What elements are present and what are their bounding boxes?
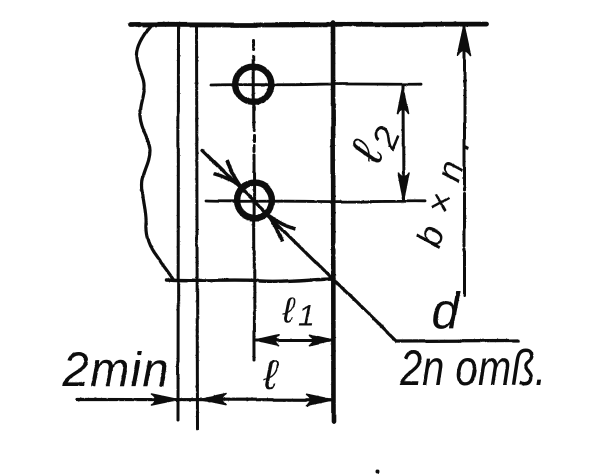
bottom hole center line (horizontal) [206,200,425,203]
arrowhead l right [307,394,333,405]
plate bottom break edge [166,279,334,282]
svg-text:ℓ: ℓ [263,351,280,398]
arrowhead diameter lower-right [270,215,296,241]
dimension line l2 [402,86,406,200]
break line (left wavy edge) [137,27,173,280]
svg-text:2n оmß.: 2n оmß. [399,340,546,396]
dimension line l1 [256,339,332,342]
label l2 (rotated) [339,113,408,173]
svg-text:2min: 2min [61,344,170,397]
arrowhead l1 right [310,335,333,345]
plate right edge (thick vertical) [331,23,336,421]
hole (bottom circle) [237,183,272,218]
dimension line 2min / l [77,398,333,401]
vertical center line (hole axis) [254,40,255,360]
arrowhead l left [200,394,226,405]
edge line A (thin vertical) [177,24,181,420]
arrowhead l1 left [256,335,279,345]
svg-text:b×n.: b×n. [409,133,478,251]
arrowhead b×n up [458,26,471,56]
svg-text:d: d [431,283,461,339]
dimension line b×n [463,27,466,296]
plate top edge [131,22,487,27]
edge line B (thin vertical) [197,24,198,429]
arrowhead l2 up [398,86,409,114]
hole (top circle) [236,67,272,103]
label b×n (rotated) [409,133,478,251]
speck [376,470,380,474]
diameter leader line through bottom hole [202,150,518,341]
svg-text:ℓ: ℓ [281,289,296,330]
top hole center line (horizontal) [211,83,421,87]
arrowhead 2min right [152,394,178,405]
arrowhead diameter upper-left [214,161,240,187]
arrowhead l2 down [398,173,409,201]
svg-text:1: 1 [298,299,315,332]
